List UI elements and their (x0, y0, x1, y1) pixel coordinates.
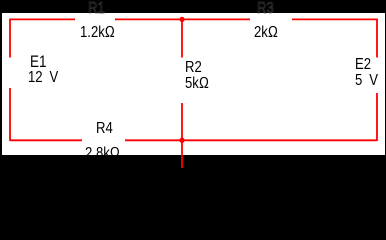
wire: bottom middle segment (R4 right lead) (125, 139, 182, 141)
wire: bottom left segment (R4 left lead) (10, 139, 82, 141)
resistor R4 value label (85, 146, 120, 162)
resistor R2 label (185, 60, 202, 76)
voltage source E1 label (30, 54, 47, 70)
wire: right vertical upper (E2 top lead) (376, 19, 378, 58)
wire: middle vertical upper (R2 top lead) (181, 19, 183, 57)
junction node dot at top of R2 branch (179, 17, 184, 22)
resistor R1 value label (80, 25, 115, 41)
ghost label R3 (in top band) (257, 1, 274, 17)
ghost label R1 (in top band) (88, 1, 105, 17)
wire: bottom right segment (182, 139, 377, 141)
voltage source E2 value (355, 73, 378, 89)
voltage source E1 value (28, 70, 58, 86)
resistor R2 value (185, 76, 209, 92)
top black band (0, 0, 386, 13)
wire: left vertical upper (E1 top lead) (9, 19, 11, 58)
resistor R3 value label (254, 25, 278, 41)
wire: right vertical lower (E2 bottom lead) (376, 93, 378, 141)
bottom black band (0, 155, 386, 187)
wire: top right segment (R3 right lead) (292, 18, 377, 20)
wire: top middle segment (R1 right lead to R3 left lead) (115, 18, 250, 20)
left edge black column (0, 0, 2, 187)
wire: middle vertical lower (R2 bottom lead with stub past bottom wire) (181, 103, 183, 168)
right edge black column (385, 0, 386, 187)
resistor R4 label (96, 121, 113, 137)
voltage source E2 label (355, 57, 371, 73)
wire: top left segment (R1 left lead) (10, 18, 75, 20)
white schematic area (0, 13, 386, 155)
junction node dot at bottom of R2 branch (179, 138, 184, 143)
wire: left vertical lower (E1 bottom lead) (9, 88, 11, 141)
